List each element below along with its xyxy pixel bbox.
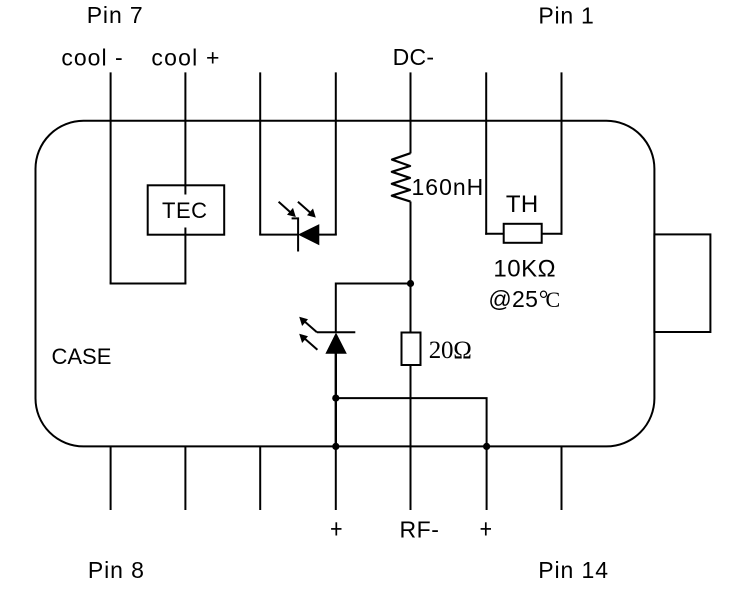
svg-text:Pin 1: Pin 1 [538,2,594,28]
PD light arrow 1 [279,202,292,213]
wire TH left horizontal [485,233,504,235]
label + right [481,522,491,535]
svg-text:Pin 14: Pin 14 [538,557,609,583]
LD cathode bar [317,331,355,333]
label + left [331,522,341,535]
case tab [654,234,710,332]
junction dot laser anode / DC- [407,280,414,287]
wire PD anode horizontal [319,234,337,236]
bottom pin 14 lead [561,446,563,510]
PD cathode bar [292,218,299,251]
thermistor TH [485,224,562,243]
laser diode LD [299,317,355,447]
wire PD cathode horizontal [259,234,298,236]
wire pin6 lead cool+ top [184,72,186,283]
PD triangle [299,225,319,245]
wire pin5 lead monitor PD cathode [259,72,261,234]
wire laser anode horizontal [336,284,411,333]
wire TEC bottom connecting cool- to cool+ [110,283,187,285]
PD light arrow 2 [298,202,312,214]
wire TH right horizontal [542,233,563,235]
wire laser cathode to plus pin [336,398,487,446]
TEC label [160,195,211,228]
LD light arrow 1 [304,321,317,333]
wire RF- through resistor [410,333,412,511]
photodiode monitor PD [259,202,337,252]
svg-text:@25°C: @25°C [488,286,560,313]
bottom pin 8 lead [110,446,112,510]
case [36,121,655,447]
svg-text:TH: TH [506,191,539,218]
inductor 160nH [392,153,411,201]
LD light arrow 2 [304,338,318,350]
svg-text:RF-: RF- [400,517,440,543]
wire pin4 lead monitor PD anode [335,72,337,234]
wire pin7 lead cool- top [110,72,112,283]
bottom pin 11 lead plus [335,446,337,510]
LD stem [335,353,337,446]
TH body [504,224,542,243]
junction dot laser cathode / bottom wire [332,395,339,402]
svg-text:160nH: 160nH [412,174,485,200]
junction dot laser stem / case bottom [332,443,339,450]
svg-text:TEC: TEC [162,198,208,223]
LD triangle [326,334,346,354]
junction dot plus pin / case bottom [483,443,490,450]
wire DC- middle [410,202,412,333]
svg-text:20Ω: 20Ω [429,337,472,364]
svg-text:cool -: cool - [61,45,123,71]
svg-text:CASE: CASE [52,344,112,369]
wire pin3 lead DC- top [410,72,412,153]
bottom pin 13 lead plus [486,446,488,510]
svg-text:DC-: DC- [393,44,435,70]
svg-text:cool +: cool + [151,45,220,71]
resistor 20Ω [402,333,421,366]
bottom pin 10 lead [259,446,261,510]
svg-text:Pin 7: Pin 7 [87,2,144,28]
svg-text:Pin 8: Pin 8 [88,557,145,583]
TEC box [148,185,225,234]
wire pin2 lead TH left [485,72,487,234]
bottom pin 9 lead [184,446,186,510]
wire pin1 lead TH right [561,72,563,234]
svg-text:10KΩ: 10KΩ [493,256,556,283]
